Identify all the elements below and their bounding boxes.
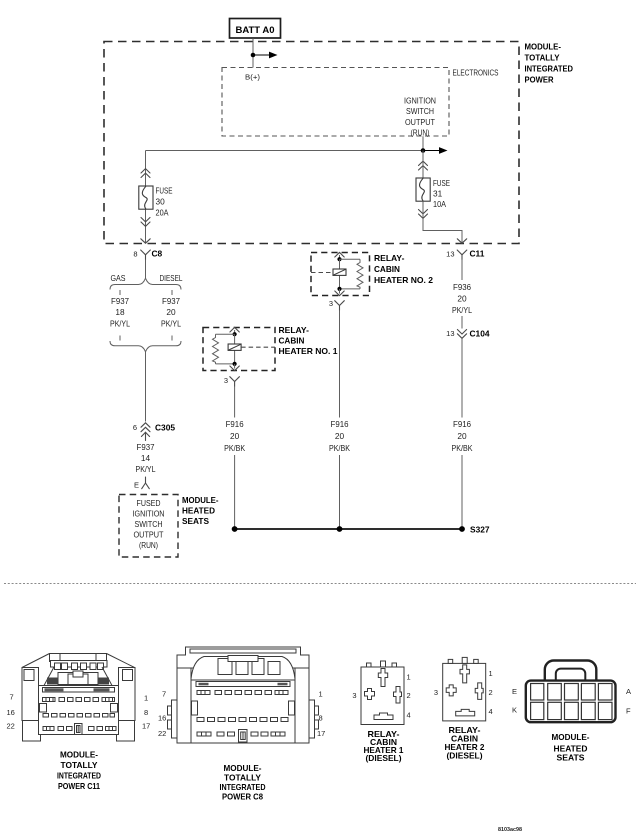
svg-text:16: 16 <box>7 708 15 717</box>
svg-text:31: 31 <box>433 189 443 199</box>
arrowhead into C8 at module edge <box>141 239 150 243</box>
svg-text:(DIESEL): (DIESEL) <box>366 753 402 763</box>
svg-text:2: 2 <box>489 688 493 697</box>
wire label F937 20 PK/YL <box>161 296 181 329</box>
wire merge down to C305 <box>145 352 147 422</box>
svg-text:3: 3 <box>329 299 333 308</box>
svg-text:POWER C11: POWER C11 <box>58 781 100 791</box>
relay 1 entry arrow <box>230 327 239 334</box>
wire relay 1 down <box>234 386 236 417</box>
svg-text:18: 18 <box>115 307 125 317</box>
svg-text:20A: 20A <box>156 208 169 218</box>
svg-text:8: 8 <box>144 708 148 717</box>
svg-text:PK/YL: PK/YL <box>110 319 130 329</box>
svg-text:20: 20 <box>230 431 240 441</box>
svg-text:OUTPUT: OUTPUT <box>405 117 435 127</box>
wire C8 to fork <box>145 260 147 278</box>
label IGNITION SWITCH OUTPUT (RUN) <box>404 96 436 138</box>
connector view MODULE-TOTALLY INTEGRATED POWER C8 <box>168 647 319 743</box>
svg-text:HEATER NO. 1: HEATER NO. 1 <box>279 346 338 356</box>
svg-text:ELECTRONICS: ELECTRONICS <box>453 68 499 78</box>
pin labels relay 2 view <box>434 669 493 716</box>
connector C305 pin 6 <box>133 423 176 441</box>
svg-text:E: E <box>134 481 139 490</box>
svg-text:FUSE: FUSE <box>156 186 173 196</box>
connector view MODULE-TOTALLY INTEGRATED POWER C11 <box>22 654 135 742</box>
relay 1 label <box>279 325 338 356</box>
wire C11 down <box>461 260 463 280</box>
svg-text:INTEGRATED: INTEGRATED <box>57 771 101 781</box>
wire stub below DIESEL <box>171 290 173 295</box>
junction dot and arrow at fuse 31 feed <box>421 147 448 154</box>
svg-text:FUSE: FUSE <box>433 178 450 188</box>
svg-text:POWER C8: POWER C8 <box>222 792 263 802</box>
relay 2 exit arrow <box>335 289 344 296</box>
chevrons below fuse 31 <box>419 210 428 219</box>
svg-text:(RUN): (RUN) <box>139 540 158 550</box>
svg-text:S327: S327 <box>470 525 490 535</box>
wire ignition switch output down <box>422 136 424 150</box>
svg-text:CABIN: CABIN <box>374 264 400 274</box>
wire C104 down <box>461 339 463 418</box>
diagram id 8103ac98 <box>498 827 522 833</box>
connector E to module heated seats <box>134 477 149 490</box>
svg-text:F937: F937 <box>162 296 180 306</box>
svg-text:13: 13 <box>446 329 454 338</box>
svg-text:BATT A0: BATT A0 <box>236 24 275 35</box>
connector C104 pin 13 <box>446 329 490 339</box>
svg-text:MODULE-: MODULE- <box>552 732 590 742</box>
label MODULE-HEATED SEATS <box>552 732 590 763</box>
svg-text:PK/YL: PK/YL <box>161 319 181 329</box>
chevrons below fuse 30 <box>141 218 150 227</box>
node B(+) junction dot and arrow <box>245 52 278 82</box>
svg-text:TOTALLY: TOTALLY <box>224 773 261 783</box>
relay 2 resistor <box>337 259 363 291</box>
svg-text:CABIN: CABIN <box>279 336 305 346</box>
svg-text:PK/YL: PK/YL <box>452 305 472 315</box>
svg-text:F916: F916 <box>331 419 349 429</box>
svg-text:TOTALLY: TOTALLY <box>525 53 560 63</box>
divider line <box>4 583 636 585</box>
label RELAY-CABIN HEATER 2 (DIESEL) <box>445 725 485 761</box>
svg-text:PK/BK: PK/BK <box>452 443 473 453</box>
module totally integrated power dashed box <box>104 42 519 244</box>
svg-text:20: 20 <box>335 431 345 441</box>
wire label F916 20 PK/BK middle <box>329 419 350 453</box>
svg-text:14: 14 <box>141 453 151 463</box>
svg-text:20: 20 <box>166 307 176 317</box>
battery feed box BATT A0 <box>230 19 281 39</box>
svg-text:F936: F936 <box>453 282 471 292</box>
pin labels C11 view <box>7 693 151 731</box>
svg-text:7: 7 <box>162 690 166 699</box>
svg-text:SEATS: SEATS <box>557 753 585 763</box>
connector C11 pin 13 <box>446 249 485 260</box>
fuse 30 20A <box>139 186 173 218</box>
svg-text:1: 1 <box>407 673 411 682</box>
svg-text:16: 16 <box>158 714 166 723</box>
relay 1 coil branch <box>228 332 275 364</box>
wire left column to splice <box>234 455 236 529</box>
svg-text:7: 7 <box>10 693 14 702</box>
svg-text:TOTALLY: TOTALLY <box>61 760 98 770</box>
wire label F937 18 PK/YL <box>110 296 130 329</box>
svg-text:C305: C305 <box>155 423 175 433</box>
pin labels relay 1 view <box>352 673 410 720</box>
svg-text:IGNITION: IGNITION <box>133 509 165 519</box>
svg-text:RELAY-: RELAY- <box>279 325 310 335</box>
relay 1 pin 3 connector <box>224 376 240 386</box>
svg-text:IGNITION: IGNITION <box>404 96 436 106</box>
svg-text:30: 30 <box>156 197 166 207</box>
connector C8 pin 8 <box>133 249 162 260</box>
connector view MODULE-HEATED SEATS <box>526 661 616 723</box>
pin labels heated seats view <box>512 687 631 716</box>
connector view RELAY-CABIN HEATER 1 (DIESEL) <box>361 661 404 725</box>
svg-text:20: 20 <box>457 294 467 304</box>
svg-text:1: 1 <box>489 669 493 678</box>
wire label F936 20 PK/YL <box>452 282 472 315</box>
label MODULE-TOTALLY INTEGRATED POWER C11 <box>57 750 101 792</box>
label RELAY-CABIN HEATER 1 (DIESEL) <box>364 729 404 763</box>
svg-text:INTEGRATED: INTEGRATED <box>525 64 574 74</box>
svg-text:17: 17 <box>142 722 150 731</box>
svg-text:3: 3 <box>434 688 438 697</box>
svg-text:A: A <box>626 687 631 696</box>
wire label F916 20 PK/BK right <box>452 419 473 453</box>
svg-text:OUTPUT: OUTPUT <box>134 530 164 540</box>
wire label F937 14 PK/YL <box>136 442 156 474</box>
svg-text:PK/BK: PK/BK <box>329 443 350 453</box>
pin labels C8 view <box>158 690 325 739</box>
svg-text:SWITCH: SWITCH <box>406 106 434 116</box>
wire to C104 <box>461 316 463 329</box>
svg-text:HEATER NO. 2: HEATER NO. 2 <box>374 275 433 285</box>
svg-text:13: 13 <box>446 250 454 259</box>
wire stub above merge right <box>171 336 173 341</box>
svg-text:C104: C104 <box>470 329 490 339</box>
svg-text:2: 2 <box>407 691 411 700</box>
svg-text:10A: 10A <box>433 199 446 209</box>
chevrons above fuse 31 <box>419 151 428 179</box>
wire fuse 31 to C11 <box>423 201 462 242</box>
wire right column to splice <box>461 455 463 529</box>
svg-text:RELAY-: RELAY- <box>374 253 405 263</box>
label MODULE-TOTALLY INTEGRATED POWER C8 <box>220 763 266 802</box>
relay 1 resistor <box>213 334 237 366</box>
wire stub above merge left <box>119 336 121 341</box>
electronics dashed box <box>222 68 499 137</box>
relay 1 exit arrow <box>230 364 239 371</box>
chevrons above fuse 30 <box>141 169 150 178</box>
svg-text:20: 20 <box>457 431 467 441</box>
svg-text:FUSED: FUSED <box>137 498 161 508</box>
svg-text:4: 4 <box>489 707 493 716</box>
label MODULE-TOTALLY INTEGRATED POWER <box>525 42 574 85</box>
fuse 31 10A <box>416 178 450 209</box>
svg-text:PK/BK: PK/BK <box>224 443 245 453</box>
relay 2 entry arrow <box>335 252 344 259</box>
connector view RELAY-CABIN HEATER 2 (DIESEL) <box>443 657 486 721</box>
wire middle column to splice <box>339 455 341 529</box>
wire label F916 20 PK/BK left <box>224 419 245 453</box>
svg-text:F937: F937 <box>111 296 129 306</box>
svg-text:GAS: GAS <box>111 273 126 283</box>
splice S327 bus <box>232 525 490 535</box>
svg-text:F916: F916 <box>453 419 471 429</box>
svg-text:8103ac98: 8103ac98 <box>498 827 522 833</box>
wire stub below GAS <box>119 290 121 295</box>
relay cabin heater no 1 box <box>203 328 275 371</box>
svg-text:17: 17 <box>317 729 325 738</box>
svg-text:SWITCH: SWITCH <box>135 519 163 529</box>
svg-text:F: F <box>626 707 631 716</box>
svg-text:SEATS: SEATS <box>182 516 209 526</box>
svg-text:1: 1 <box>319 690 323 699</box>
svg-text:DIESEL: DIESEL <box>160 273 183 283</box>
svg-text:K: K <box>512 706 517 715</box>
svg-text:E: E <box>512 687 517 696</box>
svg-text:6: 6 <box>133 423 137 432</box>
svg-text:3: 3 <box>352 691 356 700</box>
svg-text:8: 8 <box>133 250 137 259</box>
svg-text:C8: C8 <box>152 249 163 259</box>
merge brace <box>110 341 181 352</box>
fused ignition switch output (run) dashed box <box>119 495 178 558</box>
svg-text:22: 22 <box>158 729 166 738</box>
relay cabin heater no 2 box <box>311 253 370 296</box>
svg-text:F937: F937 <box>137 442 155 452</box>
svg-text:(DIESEL): (DIESEL) <box>447 751 483 761</box>
svg-text:POWER: POWER <box>525 75 554 85</box>
svg-text:PK/YL: PK/YL <box>136 464 156 474</box>
wire BATT A0 to electronics <box>252 38 254 67</box>
svg-text:C11: C11 <box>470 249 485 259</box>
svg-text:MODULE-: MODULE- <box>525 42 562 52</box>
svg-text:F916: F916 <box>226 419 244 429</box>
svg-text:HEATED: HEATED <box>182 506 215 516</box>
svg-text:4: 4 <box>407 711 411 720</box>
svg-text:(RUN): (RUN) <box>411 128 430 138</box>
relay 2 coil branch <box>311 257 346 289</box>
GAS / DIESEL fork brace <box>110 273 183 290</box>
svg-text:1: 1 <box>144 694 148 703</box>
wire horizontal bus to fuses <box>146 150 424 152</box>
label MODULE-HEATED SEATS <box>182 495 219 526</box>
relay 2 label <box>374 253 433 285</box>
wire relay 2 down <box>339 310 341 417</box>
relay 2 pin 3 connector <box>329 299 344 310</box>
svg-text:3: 3 <box>224 376 228 385</box>
svg-text:B(+): B(+) <box>245 73 261 82</box>
wire left column to C8 <box>145 151 147 244</box>
svg-text:MODULE-: MODULE- <box>224 763 262 773</box>
svg-text:INTEGRATED: INTEGRATED <box>220 782 266 792</box>
svg-text:8: 8 <box>319 714 323 723</box>
svg-text:22: 22 <box>7 722 15 731</box>
svg-text:MODULE-: MODULE- <box>182 495 219 505</box>
svg-text:MODULE-: MODULE- <box>60 750 98 760</box>
arrowhead into C11 at module edge <box>457 239 466 243</box>
